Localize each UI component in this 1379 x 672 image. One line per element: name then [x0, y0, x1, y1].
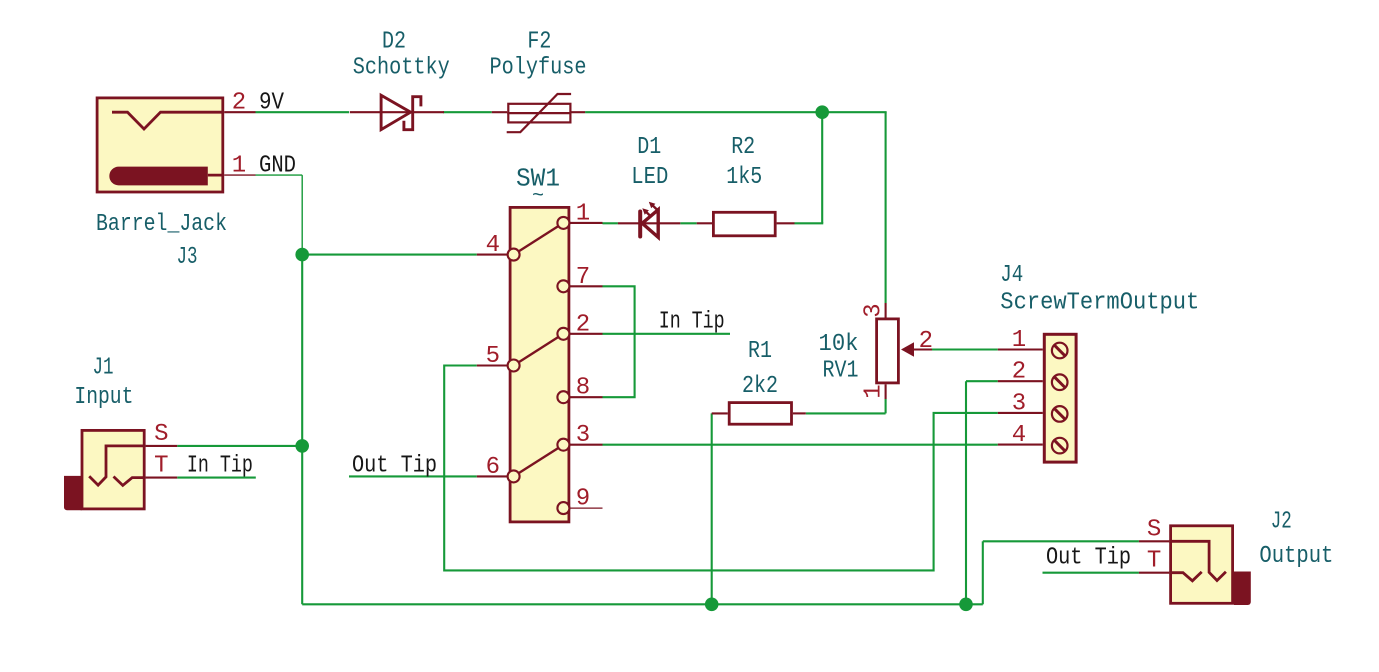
svg-text:4: 4	[1012, 422, 1026, 449]
svg-text:R2: R2	[731, 134, 755, 161]
svg-text:7: 7	[576, 264, 590, 291]
svg-text:J3: J3	[177, 244, 198, 271]
svg-text:2: 2	[576, 311, 590, 338]
svg-text:Output: Output	[1259, 543, 1333, 570]
svg-text:~: ~	[532, 185, 544, 208]
svg-text:1: 1	[861, 384, 888, 398]
svg-text:5: 5	[486, 343, 500, 370]
svg-text:In Tip: In Tip	[187, 453, 253, 480]
svg-text:R1: R1	[748, 338, 772, 365]
svg-text:Out Tip: Out Tip	[1046, 545, 1131, 572]
svg-text:2k2: 2k2	[742, 373, 778, 400]
svg-text:Schottky: Schottky	[353, 55, 450, 82]
svg-text:10k: 10k	[819, 331, 859, 358]
svg-text:3: 3	[576, 422, 590, 449]
svg-text:1: 1	[576, 200, 590, 227]
svg-text:D1: D1	[637, 134, 661, 161]
svg-text:3: 3	[1012, 390, 1026, 417]
svg-text:9: 9	[576, 486, 590, 513]
svg-text:2: 2	[232, 90, 246, 117]
svg-text:Polyfuse: Polyfuse	[490, 55, 587, 82]
svg-text:J4: J4	[1000, 262, 1023, 289]
svg-text:1: 1	[1012, 327, 1026, 354]
svg-text:8: 8	[576, 375, 590, 402]
svg-text:LED: LED	[631, 164, 668, 191]
svg-text:1k5: 1k5	[726, 164, 762, 191]
svg-text:1: 1	[232, 153, 246, 180]
svg-text:F2: F2	[527, 29, 551, 56]
svg-text:D2: D2	[382, 29, 406, 56]
svg-text:6: 6	[486, 454, 500, 481]
svg-text:In Tip: In Tip	[659, 309, 725, 336]
svg-text:T: T	[1147, 548, 1161, 575]
svg-text:Barrel_Jack: Barrel_Jack	[96, 211, 227, 238]
svg-text:2: 2	[1012, 359, 1026, 386]
svg-text:Input: Input	[74, 384, 133, 411]
svg-text:S: S	[1147, 516, 1161, 543]
svg-text:ScrewTermOutput: ScrewTermOutput	[1000, 290, 1199, 317]
svg-text:J1: J1	[93, 354, 114, 381]
svg-text:RV1: RV1	[823, 358, 859, 385]
svg-text:Out Tip: Out Tip	[352, 453, 437, 480]
svg-text:J2: J2	[1271, 509, 1292, 536]
svg-text:T: T	[154, 453, 168, 480]
svg-text:4: 4	[486, 232, 500, 259]
svg-text:S: S	[154, 421, 168, 448]
svg-text:9V: 9V	[259, 90, 285, 117]
svg-text:3: 3	[861, 303, 888, 317]
svg-text:GND: GND	[259, 153, 296, 180]
svg-text:2: 2	[919, 328, 933, 355]
